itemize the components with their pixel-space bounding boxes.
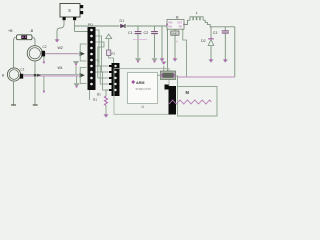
net stub below sensor C2 pad <box>43 57 45 64</box>
svg-text:R1: R1 <box>93 98 97 102</box>
wire B bottom to resonator <box>167 29 169 71</box>
wire S to connector P0 pin1 <box>75 31 88 33</box>
svg-text:STM32-XXXX: STM32-XXXX <box>136 88 152 91</box>
capacitor C1 <box>135 26 142 58</box>
label C2 (cap) <box>144 31 149 35</box>
feedback wire y77 <box>178 76 235 78</box>
label P0 <box>88 23 93 27</box>
svg-text:M: M <box>186 90 190 95</box>
ground arrow under C1 <box>135 58 141 62</box>
connector J2 strip <box>109 63 120 96</box>
wire stub below P0 <box>89 90 91 100</box>
svg-text:C1: C1 <box>20 68 24 72</box>
svg-text:P0: P0 <box>88 23 93 27</box>
ground arrow under R1 <box>103 114 108 118</box>
plug arrow W1 into P0 <box>80 68 87 84</box>
capacitor C2 <box>151 26 158 58</box>
svg-text:ON: ON <box>168 24 172 28</box>
svg-text:GND: GND <box>172 31 178 35</box>
sensor C1 output pad <box>20 74 23 79</box>
svg-text:FB: FB <box>179 24 183 28</box>
net stub below W1 <box>43 76 45 92</box>
pin S right-top <box>80 5 83 8</box>
wire from S right pin down <box>74 20 76 31</box>
sensor C2 circle <box>27 46 42 61</box>
sensor C1 circle <box>7 68 20 81</box>
svg-text:B: B <box>2 73 4 77</box>
wire GND pad down <box>175 35 178 58</box>
svg-text:D1: D1 <box>120 19 125 23</box>
diode D1 <box>121 24 126 28</box>
label B (left of sensor C1) <box>2 73 4 77</box>
terminal left <box>11 104 16 106</box>
wire P0 to J2 pin2 <box>96 36 109 72</box>
power arrow up R2 <box>106 34 112 39</box>
net arrow below S <box>54 39 59 43</box>
svg-text:L: L <box>196 11 198 15</box>
ground arrow under C2 <box>151 58 157 62</box>
motor winding wave <box>169 100 211 104</box>
wire from S left pin to arrow <box>57 20 64 39</box>
wire fuse left lead <box>14 37 17 68</box>
net arrow below W1 <box>74 76 80 87</box>
net arrow above W1 <box>73 61 79 74</box>
wire P0 pin8 stub <box>96 60 99 63</box>
svg-text:D2: D2 <box>201 39 206 43</box>
label C1 (sensor) <box>20 68 24 72</box>
wire through sensor C2 down <box>34 61 36 105</box>
wire resonator to driver bar <box>176 76 178 86</box>
switch box S <box>60 4 80 18</box>
svg-text:OUT: OUT <box>177 20 183 24</box>
inductor L <box>184 17 235 27</box>
label W1 <box>58 66 63 70</box>
label C2 (sensor) <box>43 45 47 49</box>
resonator X1 <box>161 71 176 80</box>
svg-text:W2: W2 <box>58 46 63 50</box>
wire P0 to J2 pin5 <box>96 72 109 90</box>
svg-text:B1: B1 <box>97 93 101 97</box>
regulator U-B box <box>166 20 185 30</box>
output rail right vertical <box>234 27 236 77</box>
wire W1 <box>23 75 79 76</box>
svg-text:C3: C3 <box>213 31 218 35</box>
wire through sensor C1 down <box>13 81 15 105</box>
label U <box>142 105 145 109</box>
wire cap bottoms link <box>133 39 147 41</box>
wire bus tap down left of B <box>161 26 163 58</box>
wire resonator stub arrow <box>161 61 166 71</box>
junction W1 <box>34 74 41 77</box>
wire B FB down to feedback line <box>183 29 187 77</box>
ground arrow under D2 <box>208 59 213 63</box>
label M <box>186 90 190 95</box>
ground arrow under C3 <box>223 59 228 63</box>
label C1 (cap) <box>128 31 133 35</box>
wire W2 <box>45 53 79 55</box>
svg-text:VIN: VIN <box>168 20 172 24</box>
wire P0 to J2 pin3 <box>96 42 109 78</box>
pin S bottom-left <box>63 17 66 20</box>
label L <box>196 11 198 15</box>
svg-text:C1: C1 <box>128 31 133 35</box>
wire fuse right lead <box>32 37 35 45</box>
label C3 <box>213 31 218 35</box>
resistor R1 <box>104 90 108 114</box>
label D1 <box>120 19 125 23</box>
wire P0 to J2 pin1 <box>96 30 109 66</box>
pin S bottom-right <box>73 17 76 20</box>
label W2 <box>58 46 63 50</box>
svg-text:ARM: ARM <box>136 81 144 85</box>
main supply bus wire y26 <box>75 25 168 27</box>
pin numbers B bottom <box>167 31 179 34</box>
svg-text:+B: +B <box>8 29 13 33</box>
GND pad box <box>171 31 179 35</box>
label B1 below P0 <box>97 93 101 97</box>
svg-text:R2: R2 <box>111 51 115 55</box>
label R2 <box>111 51 115 55</box>
svg-text:W1: W1 <box>58 66 63 70</box>
svg-text:-B: -B <box>30 29 34 33</box>
driver bar (power stage) <box>165 85 177 115</box>
fuse F1 <box>17 35 33 40</box>
wire ARM to resonator <box>158 74 161 76</box>
capacitor C3 <box>222 27 229 60</box>
zener diode D2 <box>208 27 214 59</box>
plug arrow W2 into P0 <box>80 44 87 61</box>
resistor R2 <box>107 39 114 63</box>
label B (regulator) <box>176 15 179 19</box>
pin S right-bottom <box>80 11 83 14</box>
label D2 <box>201 39 206 43</box>
label R1 <box>93 98 97 102</box>
controller module board box <box>114 69 169 115</box>
wire P0 to J2 pin4 <box>96 66 109 84</box>
svg-text:S: S <box>68 8 71 13</box>
wire B to GND pad <box>174 29 176 31</box>
svg-text:C2: C2 <box>144 31 149 35</box>
label -B <box>30 29 34 33</box>
svg-text:C2: C2 <box>43 45 47 49</box>
terminal right <box>33 104 38 106</box>
MCU board U (ARM) <box>128 73 158 104</box>
ground arrow left of B <box>159 58 164 62</box>
motor box M <box>178 87 218 117</box>
ground arrow under GND pad <box>172 58 177 62</box>
connector P0 strip <box>88 27 96 90</box>
label +B <box>8 29 13 33</box>
sensor C2 output pad <box>42 51 46 57</box>
